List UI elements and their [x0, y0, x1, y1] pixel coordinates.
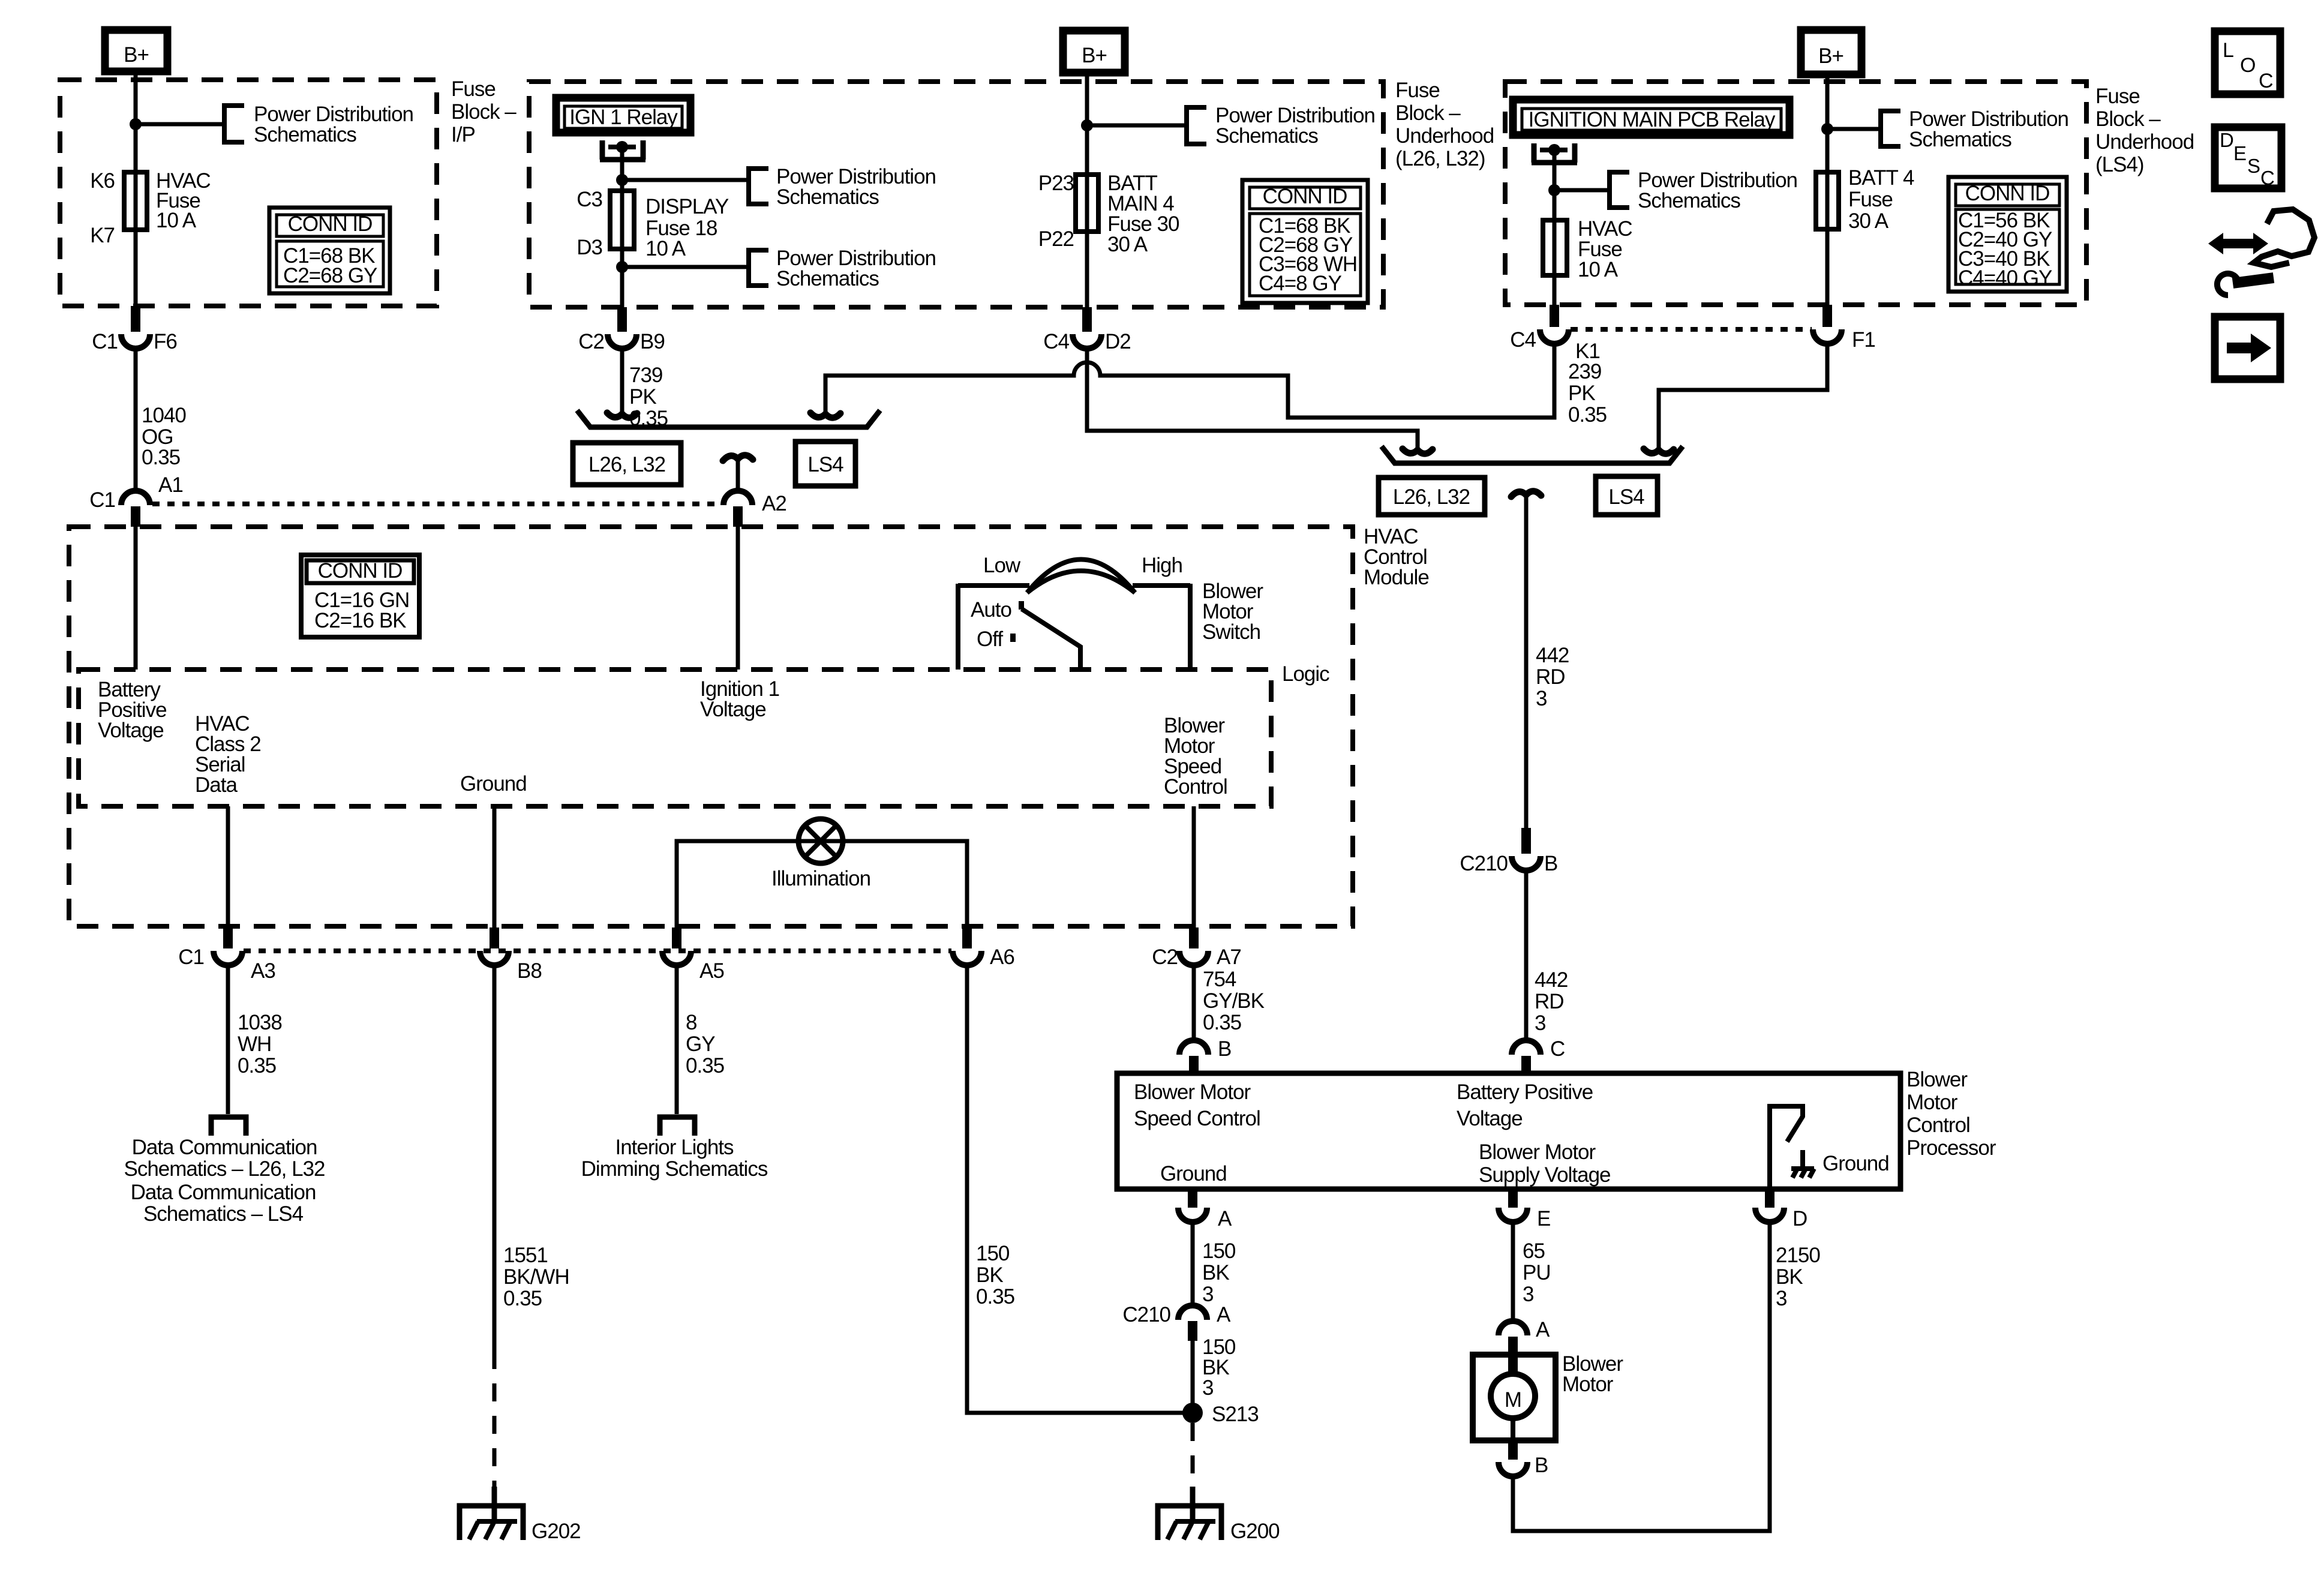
svg-text:CONN ID: CONN ID [1965, 182, 2050, 205]
svg-text:Schematics: Schematics [776, 267, 879, 290]
svg-text:0.35: 0.35 [503, 1287, 542, 1310]
label box LS4 (right bus) [1596, 476, 1658, 515]
svg-text:C1: C1 [89, 488, 115, 512]
svg-text:30 A: 30 A [1107, 233, 1148, 256]
svg-text:Processor: Processor [1906, 1136, 1996, 1160]
illumination lamp circuit wire [677, 841, 967, 927]
svg-text:B+: B+ [124, 43, 149, 67]
splice bus right (engine variant select) [1382, 446, 1683, 463]
svg-text:A1: A1 [158, 473, 183, 497]
svg-text:150: 150 [976, 1242, 1010, 1265]
svg-text:A6: A6 [990, 945, 1014, 969]
dotted connector line C1 row (A1 to A2) [152, 502, 722, 506]
svg-text:RD: RD [1535, 990, 1564, 1013]
svg-text:Ground: Ground [1822, 1152, 1889, 1175]
svg-text:Auto: Auto [971, 598, 1011, 622]
power symbol B+ (right, underhood LS4) [1801, 30, 1861, 74]
svg-text:Schematics: Schematics [1638, 189, 1740, 212]
svg-text:A3: A3 [251, 959, 275, 983]
fuse HVAC Fuse 10A (I/P fuse block) [124, 172, 147, 230]
CONN ID table (HVAC control module) [301, 555, 419, 637]
svg-text:PK: PK [1568, 382, 1595, 405]
svg-text:Battery Positive: Battery Positive [1457, 1080, 1593, 1104]
svg-text:Data Communication: Data Communication [132, 1136, 317, 1159]
wire 65 PU 3 (E to blower motor) [1511, 1222, 1515, 1322]
connector C4 K1 [1510, 305, 1600, 363]
node junction below B+ right [1821, 123, 1833, 135]
connector F1 [1813, 305, 1875, 352]
svg-text:Motor: Motor [1906, 1091, 1958, 1114]
svg-text:65: 65 [1523, 1239, 1545, 1263]
svg-text:Block –: Block – [1395, 101, 1461, 125]
node junction below display fuse [616, 261, 628, 273]
svg-text:Blower: Blower [1906, 1068, 1968, 1091]
wire 150 BK 0.35 (A6 to S213) [967, 965, 1184, 1413]
ground G202 [460, 1487, 581, 1543]
svg-text:Fuse: Fuse [451, 77, 496, 101]
relay IGNITION MAIN PCB Relay label box [1513, 100, 1789, 135]
svg-text:C3: C3 [577, 188, 602, 211]
svg-text:C1: C1 [178, 945, 204, 969]
svg-text:C4: C4 [1510, 328, 1536, 352]
off-page reference bracket (power distribution, LS4) [1610, 172, 1629, 208]
svg-text:Module: Module [1364, 566, 1429, 589]
svg-text:BATT 4: BATT 4 [1848, 166, 1914, 190]
connector row dotted line (module bottom) [244, 948, 951, 953]
wire B+ to HVAC fuse [134, 71, 138, 307]
off-page reference bracket (power distribution, LS4 right) [1881, 111, 1900, 146]
wire B+ to BATT MAIN 4 fuse [1085, 73, 1089, 307]
svg-text:Schematics – L26, L32: Schematics – L26, L32 [124, 1157, 325, 1181]
svg-text:IGNITION MAIN PCB Relay: IGNITION MAIN PCB Relay [1529, 108, 1776, 131]
svg-text:Control: Control [1906, 1113, 1970, 1137]
svg-text:F6: F6 [154, 330, 177, 353]
power symbol B+ (left, fuse block I/P) [105, 30, 167, 71]
node junction below B+ center [1081, 119, 1093, 131]
svg-text:Data: Data [195, 773, 238, 797]
svg-text:Illumination: Illumination [771, 867, 870, 890]
wire bus to A2 connector [736, 459, 740, 492]
wire B+ to BATT 4 fuse [1825, 74, 1830, 305]
svg-text:F1: F1 [1852, 328, 1875, 352]
connector E (blower motor supply) [1499, 1189, 1550, 1230]
hook terminal into right bus (F1 feed) [1644, 449, 1674, 454]
svg-text:S213: S213 [1212, 1403, 1259, 1426]
svg-text:K7: K7 [90, 224, 115, 247]
svg-text:739: 739 [629, 364, 662, 387]
wire 2150 BK 3 (D to blower motor B) [1513, 1222, 1770, 1531]
svg-text:150: 150 [1202, 1239, 1236, 1263]
hook tap from left bus to A2 [723, 455, 753, 461]
connector C210 A [1122, 1303, 1231, 1341]
svg-text:A2: A2 [762, 492, 786, 515]
wire 1040 OG [134, 349, 138, 491]
svg-text:B: B [1535, 1454, 1548, 1477]
svg-text:GY/BK: GY/BK [1203, 989, 1265, 1013]
off-page staple (data communication) [211, 1117, 246, 1136]
lamp illumination [798, 819, 843, 863]
svg-text:Schematics: Schematics [776, 185, 879, 209]
svg-text:C2: C2 [578, 330, 604, 353]
svg-text:0.35: 0.35 [1203, 1011, 1241, 1034]
svg-text:Schematics – LS4: Schematics – LS4 [143, 1202, 304, 1226]
svg-text:GY: GY [686, 1032, 715, 1056]
svg-text:3: 3 [1202, 1376, 1213, 1400]
svg-text:BK: BK [976, 1263, 1003, 1287]
HVAC control module dashed box [69, 527, 1353, 926]
connector C1 A1 (HVAC control module) [89, 473, 183, 527]
fuse block underhood (LS4) dashed box [1505, 82, 2086, 305]
svg-text:Switch: Switch [1202, 620, 1260, 644]
svg-text:C210: C210 [1122, 1303, 1170, 1326]
svg-text:10 A: 10 A [645, 237, 686, 260]
wire 239 PK from K1 to left bus with hop over D2 wire [825, 344, 1554, 418]
wire to power distribution reference lower [622, 265, 749, 269]
svg-text:DISPLAY: DISPLAY [645, 195, 729, 218]
power symbol B+ (center, underhood L26/L32) [1063, 31, 1125, 73]
relay IGN 1 Relay label box [556, 98, 690, 133]
relay contact symbol (IGN 1 relay output) [600, 140, 645, 180]
svg-text:B+: B+ [1082, 44, 1107, 67]
svg-text:C2: C2 [1152, 945, 1178, 969]
svg-text:B9: B9 [640, 330, 665, 353]
wire 8 GY (A5 to interior lights) [675, 965, 679, 1114]
wire 442 RD 3 (bus to C210) [1524, 495, 1529, 828]
svg-text:C4=40 GY: C4=40 GY [1958, 266, 2052, 290]
svg-text:K6: K6 [90, 169, 115, 193]
svg-text:(LS4): (LS4) [2095, 153, 2144, 176]
connector B (blower motor) [1499, 1440, 1548, 1477]
svg-text:B+: B+ [1818, 44, 1843, 68]
icon forward arrow box [2215, 317, 2280, 379]
svg-text:442: 442 [1536, 644, 1569, 667]
dotted connector line C4 row (K1 to F1) [1571, 327, 1812, 332]
label box L26, L32 (right bus) [1379, 478, 1485, 515]
svg-text:C4=8 GY: C4=8 GY [1259, 272, 1342, 295]
svg-text:Blower Motor: Blower Motor [1134, 1080, 1251, 1104]
svg-text:Fuse: Fuse [1848, 188, 1893, 211]
svg-text:A: A [1218, 1207, 1232, 1230]
connector A6 [953, 927, 1014, 969]
svg-text:D2: D2 [1105, 330, 1131, 353]
wire 754 GY/BK (A7 to processor B) [1192, 965, 1196, 1040]
wire 442 RD 3 (C210 to processor) [1524, 870, 1529, 1040]
label box LS4 (left bus) [795, 442, 855, 486]
svg-text:A5: A5 [699, 959, 724, 983]
wire to power distribution reference [1087, 124, 1187, 128]
svg-text:0.35: 0.35 [686, 1054, 724, 1077]
dashed ground wire to G202 [493, 1351, 497, 1487]
svg-text:G200: G200 [1230, 1520, 1280, 1543]
svg-text:L26, L32: L26, L32 [588, 453, 665, 476]
wire blower motor speed control (logic to A7) [1192, 806, 1196, 927]
connector C2 B9 [578, 307, 665, 353]
svg-text:Speed Control: Speed Control [1134, 1107, 1260, 1130]
svg-text:1551: 1551 [503, 1244, 548, 1267]
svg-text:Voltage: Voltage [1457, 1107, 1523, 1130]
svg-text:CONN ID: CONN ID [288, 212, 373, 236]
off-page reference bracket (power distribution, upper) [749, 169, 768, 204]
svg-text:Schematics: Schematics [1215, 124, 1318, 148]
svg-text:0.35: 0.35 [1568, 403, 1607, 427]
svg-text:239: 239 [1568, 360, 1601, 383]
svg-text:C: C [2259, 70, 2274, 92]
svg-text:WH: WH [238, 1032, 271, 1056]
svg-text:2150: 2150 [1776, 1244, 1820, 1267]
svg-text:Interior Lights: Interior Lights [615, 1136, 734, 1159]
svg-text:LS4: LS4 [1608, 485, 1644, 509]
off-page staple (interior lights dimming) [660, 1117, 695, 1136]
svg-text:3: 3 [1776, 1287, 1786, 1310]
svg-text:D3: D3 [577, 236, 602, 259]
svg-text:Off: Off [977, 628, 1003, 651]
splice S213 [1182, 1403, 1203, 1423]
svg-text:10 A: 10 A [1578, 258, 1619, 281]
svg-text:E: E [1537, 1207, 1550, 1230]
svg-text:IGN 1 Relay: IGN 1 Relay [569, 106, 678, 129]
svg-text:(L26, L32): (L26, L32) [1395, 147, 1485, 170]
wire relay to display fuse [620, 177, 624, 307]
svg-text:G202: G202 [532, 1520, 581, 1543]
svg-text:3: 3 [1202, 1283, 1213, 1306]
wire 1551 BK/WH (B8 to G202) [493, 965, 497, 1351]
svg-text:Logic: Logic [1282, 662, 1329, 686]
svg-text:A: A [1536, 1318, 1550, 1341]
svg-text:Schematics: Schematics [1909, 128, 2011, 151]
svg-text:BK/WH: BK/WH [503, 1265, 569, 1289]
svg-text:D: D [2220, 129, 2234, 151]
hook tap from right bus to 442 RD wire [1511, 491, 1541, 497]
hook terminal into bus (739 PK) [607, 413, 637, 418]
dashed ground wire to G200 [1191, 1423, 1195, 1487]
connector C (blower motor control processor) [1512, 1037, 1565, 1073]
connector A (blower motor) [1499, 1318, 1550, 1355]
svg-text:A7: A7 [1217, 945, 1241, 969]
svg-text:Ground: Ground [460, 772, 527, 795]
hook terminal into right bus (D2 feed) [1403, 449, 1433, 454]
CONN ID table (I/P fuse block) [269, 208, 390, 293]
wire 150 BK 3 (A to C210) [1191, 1222, 1195, 1307]
svg-text:High: High [1142, 554, 1182, 577]
wire 739 PK down to splice bus [620, 349, 624, 415]
svg-text:10 A: 10 A [156, 209, 197, 232]
svg-text:Low: Low [983, 554, 1021, 577]
fuse DISPLAY Fuse 18 10A [610, 191, 634, 249]
svg-text:Control: Control [1164, 775, 1227, 798]
svg-text:LS4: LS4 [807, 453, 843, 476]
svg-text:P22: P22 [1038, 227, 1074, 251]
svg-text:L: L [2223, 39, 2234, 62]
svg-text:Voltage: Voltage [98, 719, 164, 742]
node junction above display fuse [616, 174, 628, 186]
svg-text:A: A [1217, 1303, 1231, 1326]
svg-text:S: S [2247, 155, 2260, 177]
hook terminal into left bus (239 PK feed) [810, 413, 840, 418]
blower motor control processor box [1117, 1073, 1900, 1189]
svg-text:Dimming Schematics: Dimming Schematics [581, 1157, 768, 1181]
internal ground switch (processor) [1770, 1106, 1889, 1189]
svg-text:CONN ID: CONN ID [318, 559, 403, 583]
CONN ID table (underhood LS4) [1948, 177, 2067, 292]
connector D (processor ground return) [1755, 1189, 1807, 1230]
node junction below B+ [130, 118, 142, 130]
ground G200 [1158, 1487, 1280, 1543]
svg-text:O: O [2240, 54, 2256, 77]
svg-text:Block –: Block – [2095, 107, 2161, 131]
svg-text:B: B [1218, 1037, 1231, 1061]
relay contact symbol (ignition main PCB relay output) [1532, 143, 1577, 190]
fuse block I/P dashed box [60, 80, 437, 306]
svg-text:Schematics: Schematics [254, 123, 356, 146]
blower motor M [1473, 1355, 1556, 1440]
svg-text:Supply Voltage: Supply Voltage [1479, 1163, 1611, 1187]
svg-text:B: B [1544, 852, 1557, 875]
svg-text:Underhood: Underhood [2095, 130, 2194, 154]
svg-text:3: 3 [1535, 1011, 1545, 1035]
svg-text:3: 3 [1536, 687, 1547, 710]
wire 150 BK 3 (C210 to S213) [1191, 1341, 1195, 1413]
connector A2 (HVAC control module) [723, 491, 786, 527]
svg-text:C4: C4 [1043, 330, 1069, 353]
connector C2 A7 [1152, 927, 1241, 969]
svg-text:Data Communication: Data Communication [131, 1181, 316, 1204]
svg-text:Motor: Motor [1562, 1373, 1614, 1396]
connector C4 D2 [1043, 307, 1131, 353]
svg-text:E: E [2233, 142, 2247, 164]
fuse HVAC Fuse 10A (LS4 block) [1543, 220, 1567, 275]
svg-text:Underhood: Underhood [1395, 124, 1494, 148]
splice bus left (engine variant select) [577, 410, 880, 427]
svg-text:0.35: 0.35 [976, 1285, 1014, 1308]
svg-text:B8: B8 [517, 959, 542, 983]
off-page reference bracket (power distribution, underhood) [1187, 107, 1206, 144]
wire F1 down to right splice bus [1659, 344, 1827, 451]
connector B8 [480, 927, 542, 983]
wire to power distribution reference [1827, 127, 1881, 131]
connector B (blower motor control processor) [1179, 1037, 1231, 1073]
wire A1 battery feed inside module [134, 527, 138, 670]
svg-text:1040: 1040 [142, 404, 186, 427]
svg-text:BK: BK [1776, 1265, 1803, 1289]
svg-text:BK: BK [1202, 1261, 1229, 1284]
svg-text:C2=16 BK: C2=16 BK [314, 609, 406, 632]
svg-text:754: 754 [1203, 968, 1236, 991]
svg-text:PU: PU [1523, 1261, 1551, 1284]
svg-text:I/P: I/P [451, 123, 475, 146]
svg-text:PK: PK [629, 385, 656, 409]
connector C210 B [1460, 828, 1557, 875]
svg-text:0.35: 0.35 [238, 1054, 276, 1077]
svg-text:Ground: Ground [1160, 1162, 1227, 1185]
svg-text:P23: P23 [1038, 172, 1074, 195]
wire D2 down to right splice bus [1087, 349, 1418, 451]
fuse BATT MAIN 4 Fuse 30 30A [1076, 175, 1098, 232]
icon LOC box [2215, 31, 2280, 94]
svg-text:L26, L32: L26, L32 [1393, 485, 1470, 509]
label box L26, L32 (left bus) [573, 443, 681, 485]
svg-text:C1: C1 [92, 330, 118, 353]
connector A5 [662, 927, 724, 983]
node junction above HVAC fuse LS4 [1548, 184, 1560, 196]
wire ground (logic to B8) [493, 806, 497, 927]
wire relay to HVAC fuse (LS4 block) [1553, 186, 1557, 305]
icon DESC box [2215, 127, 2281, 189]
wire HVAC class 2 serial data (logic to A3) [226, 806, 230, 927]
svg-text:30 A: 30 A [1848, 209, 1889, 233]
wire to power distribution reference [1554, 188, 1610, 193]
connector A (processor ground) [1178, 1189, 1232, 1230]
wire 1038 WH (A3 to data communication) [226, 965, 230, 1114]
wire A2 ignition feed inside module [736, 527, 740, 670]
svg-text:D: D [1792, 1207, 1807, 1230]
wire to power distribution reference [136, 122, 224, 127]
fuse block underhood (L26,L32) dashed box [529, 82, 1383, 307]
svg-text:1038: 1038 [238, 1011, 282, 1034]
svg-text:C: C [1550, 1037, 1565, 1061]
svg-text:3: 3 [1523, 1283, 1533, 1306]
svg-text:8: 8 [686, 1011, 696, 1034]
svg-text:RD: RD [1536, 665, 1565, 689]
svg-text:Blower Motor: Blower Motor [1479, 1140, 1596, 1164]
svg-text:Fuse: Fuse [2095, 85, 2140, 108]
fuse BATT 4 Fuse 30A [1816, 172, 1839, 229]
svg-text:Fuse: Fuse [1395, 79, 1440, 102]
svg-text:C: C [2260, 167, 2275, 189]
off-page reference bracket (power distribution, I/P) [224, 106, 244, 142]
logic dashed box [79, 670, 1271, 806]
svg-text:0.35: 0.35 [142, 446, 180, 469]
svg-text:C210: C210 [1460, 852, 1508, 875]
svg-text:C2=68 GY: C2=68 GY [283, 264, 377, 287]
CONN ID table (underhood L26/L32) [1242, 180, 1368, 303]
svg-text:442: 442 [1535, 968, 1568, 992]
wire to power distribution reference [622, 178, 749, 182]
svg-text:Block –: Block – [451, 100, 517, 124]
svg-text:Voltage: Voltage [700, 698, 766, 721]
svg-text:CONN ID: CONN ID [1263, 185, 1347, 208]
blower motor switch [958, 554, 1190, 670]
connector C1 A3 [178, 927, 275, 983]
icon harness repair (arrow and wrench) [2208, 209, 2314, 295]
svg-text:M: M [1505, 1388, 1521, 1412]
connector C1 F6 [92, 306, 177, 353]
off-page reference bracket (power distribution, lower) [749, 250, 768, 286]
